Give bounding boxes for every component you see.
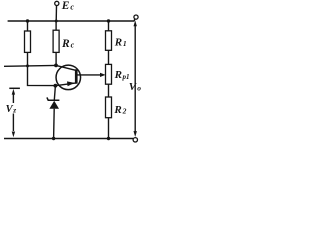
node junction bottom rail / R2 — [107, 137, 110, 140]
wire Rp1 to R2 lead — [108, 84, 110, 97]
zener diode Dz cathode bar with tick — [47, 97, 60, 100]
wire Rc bottom lead — [55, 52, 57, 65]
wire R1 to Rp1 lead — [108, 50, 110, 64]
wire bottom rail — [4, 138, 133, 140]
node junction bottom rail / zener — [52, 137, 55, 140]
label R2 — [113, 104, 126, 116]
terminal output top-right — [134, 15, 138, 19]
label R1 — [114, 36, 127, 48]
zener diode Dz triangle (anode, pointing up) — [49, 101, 59, 109]
label Rp1 — [114, 69, 130, 81]
wire top rail — [8, 20, 135, 22]
resistor R (left, unlabeled) — [25, 31, 31, 52]
svg-text:z: z — [12, 105, 16, 114]
terminal Ec — [55, 1, 59, 5]
transistor Q1 base lead to potentiometer wiper — [77, 74, 101, 76]
terminal output bottom-right — [133, 138, 137, 142]
wire Ec stem — [55, 6, 57, 21]
node junction top rail / Ec stem — [55, 20, 58, 23]
node collector junction — [54, 64, 58, 68]
annotation Vo arrow line — [134, 25, 136, 133]
resistor Rc — [53, 30, 59, 52]
wire rail end to terminal — [133, 19, 136, 21]
transistor Q1 emitter lead — [55, 83, 76, 86]
annotation Vz up arrow — [12, 92, 14, 103]
svg-text:R: R — [113, 104, 121, 116]
potentiometer Rp1 — [106, 64, 112, 84]
resistor R1 — [106, 31, 112, 51]
svg-text:R: R — [114, 69, 122, 81]
annotation Vz down arrow — [12, 114, 14, 132]
wire left resistor top lead — [27, 21, 29, 31]
annotation Vo down arrowhead — [134, 131, 137, 137]
transistor Q1 collector lead — [56, 65, 76, 70]
zener diode Dz cathode lead — [54, 86, 55, 101]
resistor R2 — [106, 97, 112, 118]
label Ec — [61, 0, 75, 12]
transistor Q1 emitter arrow (points into bar, PNP) — [67, 81, 75, 86]
node junction top rail / left resistor — [26, 19, 29, 22]
svg-text:c: c — [71, 40, 75, 49]
node emitter junction — [54, 84, 58, 88]
svg-text:2: 2 — [122, 107, 127, 116]
svg-text:p1: p1 — [122, 73, 130, 81]
svg-text:R: R — [114, 36, 122, 48]
svg-text:1: 1 — [123, 39, 127, 48]
svg-text:c: c — [70, 3, 74, 12]
node junction top rail / R1 column — [107, 19, 110, 22]
node junction upper wire / left column — [26, 64, 29, 67]
svg-text:R: R — [61, 38, 70, 50]
wire left resistor bottom lead down to corner — [28, 52, 56, 85]
wire upper-left horizontal — [4, 64, 56, 67]
wire R2 bottom lead — [108, 118, 110, 139]
transistor Q1 base bar — [75, 69, 78, 83]
transistor Q1 body — [56, 65, 81, 90]
annotation Vo up arrowhead — [134, 20, 137, 26]
label Vo — [129, 81, 142, 93]
wire Rc top lead — [55, 21, 57, 30]
annotation Vz top tick — [9, 87, 20, 89]
label Rc — [61, 38, 75, 50]
svg-text:o: o — [137, 83, 141, 92]
wire R1 top lead — [108, 21, 110, 31]
svg-text:E: E — [61, 0, 70, 12]
label Vz — [6, 104, 17, 115]
wiper arrowhead at Rp1 — [100, 73, 106, 77]
zener diode Dz anode lead — [53, 109, 56, 139]
